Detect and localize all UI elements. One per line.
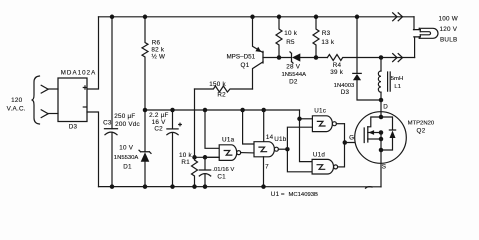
svg-text:R1: R1 [181, 159, 190, 166]
resistor R5 10k [276, 17, 282, 58]
wire [48, 88, 58, 90]
wire R2 to R1 [194, 89, 196, 157]
svg-text:200 Vdc: 200 Vdc [115, 121, 140, 128]
node dot source [379, 148, 384, 153]
node dot mid rail C1 branch [203, 108, 208, 113]
node dot bottom rail C3 [110, 184, 115, 189]
svg-text:100 W: 100 W [438, 16, 457, 23]
NAND gate U1d [312, 159, 333, 174]
svg-text:C3: C3 [103, 120, 112, 127]
resistor R1 10k [192, 157, 198, 186]
svg-text:L1: L1 [394, 84, 401, 90]
NAND gate U1a [219, 145, 236, 161]
wire R2 to Q1 collector [253, 62, 264, 89]
node dot bottom rail pin7 [261, 184, 266, 189]
drain stub [368, 117, 381, 127]
lamp bulb 100W [414, 30, 421, 37]
node dot base wire R5 [277, 55, 282, 60]
wire U1d output [338, 166, 345, 168]
node dot gate node [343, 140, 348, 145]
svg-text:1N5544A: 1N5544A [282, 72, 307, 78]
node dot top rail D3 [355, 15, 360, 20]
wire bridge - output [87, 112, 99, 187]
wire base rail [279, 57, 327, 59]
svg-text:½ W: ½ W [151, 53, 165, 61]
node dot base wire R3 [314, 55, 319, 60]
chevrons on top rail [393, 13, 403, 21]
wire U1b upper input [243, 110, 254, 144]
node dot top rail R6 [143, 15, 148, 20]
node dot bottom rail C1 [203, 184, 208, 189]
channel bar [367, 127, 369, 142]
node dot drain wire [379, 55, 384, 60]
svg-text:D: D [383, 104, 388, 111]
node dot mid rail C2 [170, 108, 175, 113]
node dot top rail R5 [277, 15, 282, 20]
body diode [381, 117, 393, 150]
wire pin 14 [263, 110, 265, 142]
NAND gate U1c [312, 116, 332, 132]
wire top rail [99, 16, 415, 18]
inductor L1 5mH [380, 58, 382, 72]
svg-text:R5: R5 [286, 39, 295, 46]
svg-text:82 k: 82 k [151, 47, 165, 54]
svg-text:120 V: 120 V [439, 26, 457, 33]
node dot drain [379, 115, 384, 120]
node dot U1b top input branch [240, 108, 245, 113]
wire U1a output [241, 152, 254, 154]
wire U1b output to U1d lower input [287, 149, 312, 172]
plus mark [83, 86, 86, 89]
bridge rectifier D3 MDA102A [58, 78, 87, 122]
wire gate drive join [344, 124, 346, 167]
node dot top rail Q1 emitter [250, 15, 255, 20]
svg-text:10 k: 10 k [179, 152, 193, 159]
svg-text:2.2 µF: 2.2 µF [149, 112, 168, 119]
svg-text:.01/16 V: .01/16 V [212, 167, 234, 173]
wire bottom rail [99, 186, 382, 188]
svg-text:U1: U1 [271, 191, 280, 198]
node dot top rail R3 [314, 15, 319, 20]
resistor R3 13k [313, 17, 319, 58]
rail mark [366, 187, 373, 189]
diode D3 1N4003 [356, 17, 358, 74]
svg-text:14: 14 [266, 134, 274, 141]
svg-text:V.A.C.: V.A.C. [7, 106, 26, 113]
svg-text:D2: D2 [289, 78, 298, 85]
svg-text:13 k: 13 k [321, 39, 335, 46]
wire C1 branch down [205, 110, 219, 148]
AC source brace [32, 76, 40, 124]
MOSFET Q2 MTP2N20 [355, 112, 407, 164]
svg-text:C1: C1 [217, 174, 226, 181]
node dot source stub [379, 137, 384, 142]
svg-text:U1c: U1c [314, 107, 326, 114]
wire U1b output to U1c lower input [287, 127, 312, 149]
capacitor C2 [172, 110, 174, 129]
svg-text:5mH: 5mH [391, 76, 403, 82]
wire pin 7 [263, 157, 265, 187]
svg-text:MTP2N20: MTP2N20 [408, 121, 435, 127]
chevrons on drain wire [393, 54, 403, 62]
node dot U1b pin14 [261, 108, 266, 113]
svg-text:D3: D3 [69, 124, 78, 131]
svg-text:R4: R4 [333, 62, 342, 69]
wire U1b output [278, 148, 287, 150]
source stub [368, 138, 381, 140]
wire R1 C1 node [195, 156, 220, 158]
wire bridge + output [87, 17, 99, 89]
zener diode D1 1N5530A [144, 110, 146, 152]
svg-text:C2: C2 [154, 126, 163, 133]
svg-text:MC14093B: MC14093B [289, 192, 319, 198]
capacitor C3 [111, 17, 113, 129]
resistor R4 39k [327, 55, 414, 61]
node dot L1 bottom [379, 98, 384, 103]
terminal arrow bottom [41, 110, 48, 118]
svg-text:39 k: 39 k [330, 69, 344, 76]
zener diode D2 1N5544A [290, 52, 293, 63]
svg-text:120: 120 [11, 97, 23, 104]
svg-text:250 µF: 250 µF [114, 113, 135, 120]
wire to MOSFET gate [345, 142, 364, 144]
svg-text:MDA102A: MDA102A [61, 69, 97, 76]
wire U1c output [336, 123, 344, 125]
node dot R1 top [192, 155, 197, 160]
wire bulb top feed [413, 17, 415, 30]
resistor R2 150k [195, 86, 253, 92]
terminal arrow top [41, 85, 48, 93]
wire drain lead [380, 100, 382, 117]
node dot U1c upper input [297, 117, 302, 122]
wire mid rail to U1c U1d upper inputs [300, 110, 313, 162]
wire U1a lower input [205, 156, 219, 158]
node dot top rail C3 [110, 15, 115, 20]
svg-text:7: 7 [265, 163, 269, 170]
svg-text:10 V: 10 V [119, 144, 134, 151]
svg-text:MPS–D51: MPS–D51 [226, 54, 255, 61]
svg-text:D3: D3 [341, 89, 350, 96]
wire source lead [380, 150, 382, 187]
svg-text:S: S [382, 164, 386, 171]
gate bar [363, 128, 365, 143]
node dot mid rail left [143, 108, 148, 113]
wire mid rail [145, 109, 300, 111]
svg-text:R6: R6 [152, 39, 161, 46]
node dot U1b output [285, 147, 290, 152]
svg-text:=: = [281, 191, 285, 198]
svg-text:10 k: 10 k [284, 30, 298, 37]
svg-text:U1a: U1a [222, 136, 235, 143]
node dot body [379, 130, 384, 135]
wire bulb bottom feed [414, 37, 416, 58]
svg-text:150 k: 150 k [209, 81, 226, 88]
body arrow [368, 132, 381, 134]
svg-text:1N5530A: 1N5530A [114, 155, 139, 161]
svg-text:R2: R2 [217, 91, 226, 98]
svg-text:U1b: U1b [274, 136, 287, 143]
svg-text:28 V: 28 V [286, 64, 301, 71]
minus mark [83, 106, 86, 108]
svg-text:Q2: Q2 [417, 128, 426, 135]
svg-text:G: G [349, 135, 354, 142]
wire [48, 113, 58, 115]
svg-text:R3: R3 [322, 30, 331, 37]
resistor R6 [142, 17, 148, 110]
NAND gate U1b [254, 142, 274, 157]
svg-text:D1: D1 [123, 163, 132, 170]
svg-text:BULB: BULB [440, 37, 457, 44]
svg-text:Q1: Q1 [241, 62, 250, 69]
node dot C1 top [203, 155, 208, 160]
transistor Q1 MPS-D51 [262, 51, 264, 63]
node dot bottom rail C2 [170, 184, 175, 189]
node dot bottom rail R1 [192, 184, 197, 189]
svg-text:U1d: U1d [313, 151, 326, 158]
capacitor C1 [204, 157, 206, 170]
node dot bottom rail D1 [143, 184, 148, 189]
